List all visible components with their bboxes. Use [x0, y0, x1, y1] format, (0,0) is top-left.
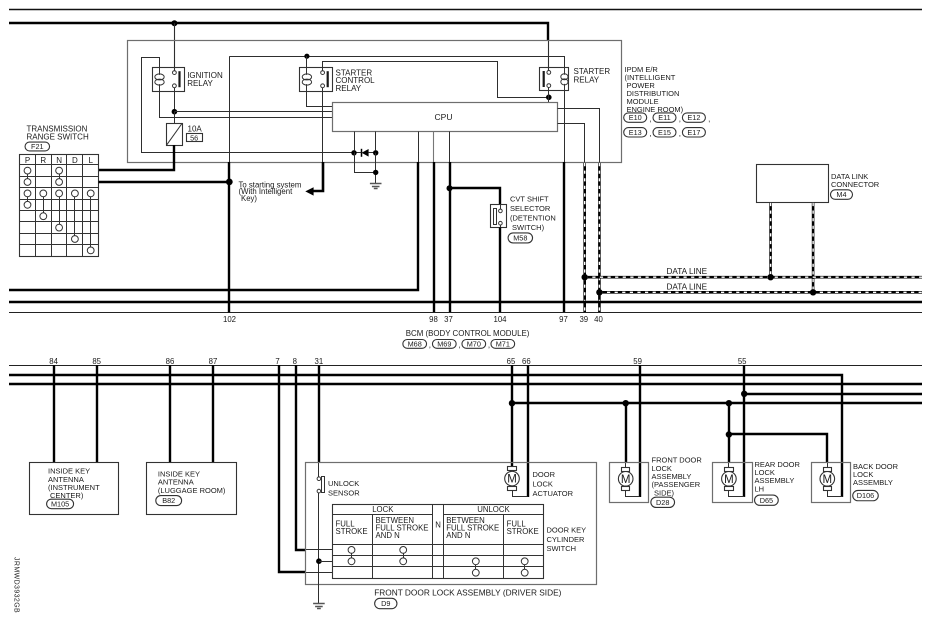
- wire rear motor return loop: [729, 491, 745, 497]
- door lock actuator M1: [508, 467, 517, 471]
- wire battery continuation line top: [9, 9, 922, 11]
- connector B82 oval: [156, 496, 182, 506]
- svg-text:M: M: [823, 474, 833, 486]
- node diode cathode junction: [351, 150, 356, 155]
- diode D1 on ignition coil line: [362, 149, 369, 157]
- svg-text:D9: D9: [381, 599, 390, 608]
- svg-text:UNLOCK: UNLOCK: [328, 479, 359, 488]
- svg-text:Key): Key): [241, 194, 257, 203]
- wire fuse bottom to transmission range switch row 1: [98, 145, 174, 170]
- wire back motor return loop: [828, 491, 843, 497]
- INSIDE KEY ANTENNA (LUGGAGE ROOM) box: [147, 463, 237, 515]
- FRONT DOOR LOCK ASSEMBLY (DRIVER SIDE) box: [306, 463, 597, 585]
- connector M70 oval: [462, 340, 486, 349]
- svg-text:8: 8: [293, 357, 297, 366]
- node ground junction: [373, 170, 378, 175]
- wire actuator return loop: [513, 491, 528, 497]
- node line D rear feed junction: [726, 400, 732, 406]
- svg-text:,: ,: [649, 115, 651, 124]
- svg-text:BCM (BODY CONTROL MODULE): BCM (BODY CONTROL MODULE): [406, 329, 530, 338]
- connector E15 oval: [653, 128, 676, 137]
- svg-text:104: 104: [493, 315, 507, 324]
- svg-text:M68: M68: [408, 340, 422, 349]
- svg-text:86: 86: [166, 357, 175, 366]
- svg-text:B82: B82: [162, 496, 175, 505]
- wire pin 98 riser: [433, 132, 435, 164]
- starter control relay box: [300, 68, 333, 92]
- svg-text:,: ,: [458, 341, 460, 350]
- svg-text:66: 66: [522, 357, 531, 366]
- svg-text:RELAY: RELAY: [187, 79, 213, 88]
- ground below diode: [370, 183, 382, 185]
- svg-text:ASSEMBLY: ASSEMBLY: [853, 478, 893, 487]
- wire ignition relay coil feed (top) to diode line riser: [142, 58, 355, 153]
- connector E10 oval: [624, 113, 647, 122]
- wire pin 97 riser thick: [563, 162, 565, 312]
- svg-text:JRMWD3932GB: JRMWD3932GB: [12, 557, 19, 613]
- svg-text:D106: D106: [857, 491, 874, 500]
- svg-text:,: ,: [649, 129, 651, 138]
- svg-text:84: 84: [49, 357, 58, 366]
- node junction on power bus feeding ignition relay: [171, 20, 177, 26]
- wire pin 102 riser lower thick: [228, 162, 230, 312]
- door key cylinder switch contacts: [348, 547, 355, 554]
- transmission range switch contact links: [27, 174, 29, 179]
- svg-text:SWITCH): SWITCH): [512, 223, 545, 232]
- wire tap down to starter control relay coil: [306, 56, 308, 68]
- rear door lock motor M3: [725, 468, 734, 472]
- svg-text:,: ,: [679, 129, 681, 138]
- node unlock sensor / switch row B junction: [316, 558, 322, 564]
- wire junction down to fuse: [174, 112, 176, 124]
- wire pin 39 riser dashed: [583, 163, 586, 312]
- INSIDE KEY ANTENNA (INSTRUMENT CENTER) box: [30, 463, 119, 515]
- svg-text:40: 40: [594, 315, 603, 324]
- svg-text:97: 97: [559, 315, 568, 324]
- REAR DOOR LOCK ASSEMBLY LH box: [713, 463, 753, 503]
- transmission range switch position contacts: [24, 167, 31, 174]
- relay feed wire from pin-102 riser to starter relay coil: [230, 57, 565, 68]
- svg-text:M105: M105: [51, 500, 69, 509]
- svg-text:D28: D28: [656, 498, 669, 507]
- wire drop from bus to starter relay contact: [548, 41, 550, 71]
- svg-text:SIDE): SIDE): [654, 488, 675, 497]
- svg-text:55: 55: [738, 357, 747, 366]
- connector M71 oval: [491, 340, 515, 349]
- svg-text:59: 59: [633, 357, 642, 366]
- svg-text:31: 31: [315, 357, 324, 366]
- wire unlock motor feed line D off page: [512, 402, 922, 404]
- wire pin 65 drop to door lock actuator: [511, 365, 513, 467]
- svg-text:DOOR: DOOR: [533, 470, 556, 479]
- node data line 39 junction: [582, 274, 588, 280]
- svg-text:STROKE: STROKE: [336, 527, 368, 536]
- FRONT DOOR LOCK ASSEMBLY (PASSENGER SIDE) box: [610, 463, 649, 503]
- wire unlock feed line C off page: [744, 393, 922, 395]
- wire ignition relay contact bottom to junction: [174, 88, 176, 112]
- svg-text:STROKE: STROKE: [507, 527, 539, 536]
- svg-text:M: M: [507, 474, 517, 486]
- arrowhead to starting system: [305, 187, 313, 195]
- label fuse number 56 box: [187, 134, 203, 142]
- svg-text:M69: M69: [437, 340, 451, 349]
- wire pin 40 riser dashed: [598, 163, 601, 312]
- svg-text:56: 56: [190, 133, 198, 142]
- wire starter relay coil bottom to pin 97 upper: [564, 91, 566, 163]
- svg-text:E17: E17: [687, 128, 700, 137]
- node CVT selector tap on pin 37 riser: [447, 185, 453, 191]
- wire CPU pin to diode anode side: [375, 132, 377, 151]
- connector M105 oval: [47, 499, 74, 509]
- wire pin 102 riser upper segment: [229, 56, 231, 163]
- wire CPU pin to diode cathode side: [354, 132, 356, 151]
- svg-text:65: 65: [507, 357, 516, 366]
- wire rear door motor feed drop: [728, 403, 730, 462]
- node rear / back door feed junction: [726, 431, 732, 437]
- svg-text:SWITCH: SWITCH: [547, 544, 577, 553]
- svg-text:F21: F21: [31, 142, 44, 151]
- wire passenger motor return loop: [626, 491, 640, 497]
- svg-text:N: N: [56, 156, 62, 165]
- svg-text:E10: E10: [629, 113, 642, 122]
- svg-text:DATA LINE: DATA LINE: [667, 267, 708, 276]
- node pin 55 / line C junction: [741, 391, 747, 397]
- svg-text:LOCK: LOCK: [372, 505, 394, 514]
- svg-text:D: D: [72, 156, 78, 165]
- data line lower dashed: [599, 291, 922, 294]
- svg-text:N: N: [435, 521, 441, 530]
- wire main power bus: [9, 23, 548, 41]
- svg-text:M71: M71: [496, 340, 510, 349]
- ignition relay coil: [155, 74, 164, 80]
- data line upper dashed: [585, 276, 922, 279]
- svg-text:ACTUATOR: ACTUATOR: [533, 489, 574, 498]
- wire pin 55 drop to rear door lock return: [743, 365, 745, 497]
- svg-text:LH: LH: [755, 484, 765, 493]
- svg-text:R: R: [40, 156, 46, 165]
- connector D106 oval: [853, 490, 879, 500]
- wire lock feed line A to back door motor: [9, 375, 842, 497]
- node data line DLC junction upper: [767, 274, 773, 280]
- wire starter control relay contact top to starter relay contact junction: [323, 62, 547, 98]
- svg-text:(DETENTION: (DETENTION: [510, 213, 556, 222]
- svg-text:SENSOR: SENSOR: [328, 489, 360, 498]
- wire pin 37 riser: [449, 132, 451, 164]
- wire to CVT shift selector: [450, 188, 500, 205]
- svg-text:E15: E15: [658, 128, 671, 137]
- wire starter control relay coil bottom to CPU: [307, 92, 333, 107]
- wire pin 31 drop to unlock sensor: [318, 365, 320, 462]
- starter relay box: [540, 68, 569, 91]
- svg-text:98: 98: [429, 315, 438, 324]
- IPDM E/R box: [128, 41, 622, 163]
- wire starter relay contact bottom into CPU: [548, 87, 550, 102]
- svg-text:CYLINDER: CYLINDER: [547, 535, 586, 544]
- connector E12 oval: [682, 113, 705, 122]
- connector M58 oval: [508, 233, 533, 243]
- svg-text:RELAY: RELAY: [336, 84, 362, 93]
- svg-text:10A: 10A: [188, 125, 203, 134]
- svg-text:7: 7: [275, 357, 279, 366]
- svg-text:87: 87: [209, 357, 218, 366]
- BACK DOOR LOCK ASSEMBLY box: [812, 463, 851, 503]
- connector E11 oval: [653, 113, 676, 122]
- node line D passenger feed junction: [623, 400, 629, 406]
- connector F21 oval: [25, 142, 50, 151]
- svg-text:39: 39: [579, 315, 588, 324]
- wire DLC CAN-H drop dashed: [769, 203, 772, 277]
- node tap to starter control relay coil: [304, 54, 309, 59]
- wire pin 85 drop to inside key antenna M105: [96, 365, 98, 462]
- svg-text:AND N: AND N: [446, 531, 470, 540]
- svg-text:M70: M70: [467, 340, 481, 349]
- wire pin 8 drop to door key cylinder switch row A: [296, 365, 306, 550]
- svg-text:,: ,: [708, 115, 710, 124]
- wire continuation bus line: [9, 301, 922, 303]
- svg-text:85: 85: [92, 357, 101, 366]
- node starter relay contact junction: [546, 95, 552, 101]
- node data line 40 junction: [596, 289, 602, 295]
- connector M4 oval: [831, 190, 853, 200]
- wire diode anode down to ground: [375, 153, 377, 184]
- svg-text:LOCK: LOCK: [533, 479, 553, 488]
- node ignition contact / fuse junction: [172, 109, 178, 115]
- svg-text:CVT SHIFT: CVT SHIFT: [510, 194, 549, 203]
- wire continuation line B: [9, 383, 922, 385]
- wire drop from bus to ignition relay contact: [174, 23, 176, 71]
- svg-text:RELAY: RELAY: [574, 75, 600, 84]
- wire pin 104 riser from CVT switch: [499, 227, 501, 312]
- svg-text:DATA LINE: DATA LINE: [667, 282, 708, 291]
- wire TRS row2 output to pin 102 riser: [99, 181, 230, 183]
- connector D9 oval: [375, 598, 397, 608]
- svg-text:L: L: [88, 156, 93, 165]
- wire pin 87 drop to inside key antenna B82: [212, 365, 214, 462]
- svg-text:E11: E11: [658, 113, 670, 122]
- wire junction to CPU left edge: [174, 111, 333, 113]
- node TRS / pin 102 riser junction: [226, 179, 233, 186]
- transmission range switch S2 table: [20, 155, 99, 257]
- fuse 10A 56: [167, 124, 183, 146]
- svg-text:AND N: AND N: [376, 531, 400, 540]
- node diode anode junction: [373, 150, 378, 155]
- node pin 65 / line D junction: [509, 400, 515, 406]
- wire ignition relay coil bottom to CPU: [160, 92, 333, 118]
- wire CPU to line 39 upper: [558, 124, 585, 163]
- svg-text:CPU: CPU: [435, 112, 453, 122]
- svg-text:,: ,: [429, 341, 431, 350]
- starter relay coil: [561, 74, 568, 80]
- svg-text:,: ,: [679, 115, 681, 124]
- wire DLC CAN-L drop dashed: [812, 203, 815, 292]
- CPU box U1: [333, 103, 558, 132]
- unlock sensor S3: [317, 477, 321, 481]
- BCM lower connector line: [9, 365, 922, 367]
- passenger door lock motor M2: [622, 468, 630, 472]
- starter relay contacts: [547, 71, 551, 75]
- connector M68 oval: [403, 340, 427, 349]
- svg-text:M: M: [621, 474, 631, 486]
- svg-text:M58: M58: [513, 234, 527, 243]
- svg-text:P: P: [25, 156, 30, 165]
- ignition relay contacts: [173, 71, 177, 75]
- ground below driver door box: [313, 603, 325, 605]
- wire line E to back door motor: [729, 434, 827, 462]
- starter control relay contacts: [321, 71, 325, 75]
- wire unlock sensor to ground with table tap: [318, 493, 320, 604]
- wire CPU pin to left bus line: [418, 132, 420, 164]
- DATA LINK CONNECTOR box: [757, 165, 829, 203]
- svg-text:,: ,: [488, 341, 490, 350]
- svg-text:DOOR KEY: DOOR KEY: [547, 525, 587, 534]
- svg-text:(LUGGAGE ROOM): (LUGGAGE ROOM): [158, 486, 226, 495]
- starter control relay coil: [302, 74, 311, 80]
- wire junction to door key cylinder switch row B: [319, 561, 333, 563]
- wire pin 84 drop to inside key antenna M105: [53, 365, 55, 462]
- svg-text:D65: D65: [760, 496, 773, 505]
- wire pin 66 drop to door lock actuator return: [527, 365, 529, 497]
- svg-text:102: 102: [223, 315, 236, 324]
- wire to starting system thick segment with arrow: [313, 162, 323, 191]
- wire passenger door motor feed drop: [625, 403, 627, 462]
- wire starter control relay contact bottom down (to starting system): [322, 88, 324, 163]
- BCM connector line: [9, 312, 922, 314]
- connector D28 oval: [651, 497, 675, 507]
- wire CPU to line 40 upper: [558, 109, 600, 163]
- svg-text:E13: E13: [629, 128, 642, 137]
- svg-text:SELECTOR: SELECTOR: [510, 204, 551, 213]
- back door lock motor M4 symbol: [824, 468, 832, 472]
- svg-text:37: 37: [444, 315, 453, 324]
- svg-text:RANGE SWITCH: RANGE SWITCH: [27, 133, 89, 142]
- connector M69 oval: [432, 340, 456, 349]
- CVT shift selector detention switch S1: [491, 205, 507, 228]
- svg-text:FRONT DOOR LOCK ASSEMBLY (DRIV: FRONT DOOR LOCK ASSEMBLY (DRIVER SIDE): [374, 587, 561, 597]
- wire pin 86 drop to inside key antenna B82: [169, 365, 171, 462]
- wire pin 59 drop to passenger door lock return: [639, 365, 641, 497]
- svg-text:E12: E12: [687, 113, 700, 122]
- svg-text:CONNECTOR: CONNECTOR: [831, 180, 880, 189]
- svg-text:M: M: [724, 474, 734, 486]
- node data line DLC junction lower: [810, 289, 816, 295]
- ignition relay IGN box: [153, 68, 185, 92]
- connector E17 oval: [682, 128, 705, 137]
- connector E13 oval: [624, 128, 647, 137]
- wire loop below diode to ground junction: [355, 153, 376, 173]
- wire pin 7 drop to door key cylinder switch row C: [279, 365, 306, 572]
- svg-text:M4: M4: [836, 190, 846, 199]
- door key cylinder switch S4 table: [333, 505, 544, 579]
- svg-text:UNLOCK: UNLOCK: [477, 505, 510, 514]
- connector D65 oval: [755, 495, 779, 505]
